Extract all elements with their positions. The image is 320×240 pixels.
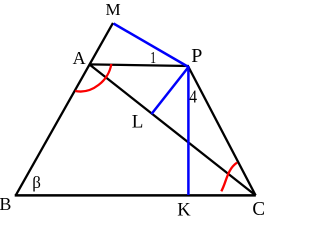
svg-text:1: 1 [150,48,156,67]
svg-text:4: 4 [189,86,197,106]
segment PC [189,67,256,195]
side BM (line through B, A, M) [16,23,113,196]
svg-text:B: B [0,194,11,214]
svg-text:β: β [32,173,41,192]
altitude PK (blue) [187,66,190,195]
svg-text:P: P [191,45,202,67]
segment AP [89,64,189,66]
angle arc at C (red) [221,163,237,192]
svg-text:A: A [73,48,86,68]
svg-text:C: C [252,198,265,220]
angle arc at A (red) [75,64,111,92]
svg-text:K: K [177,201,191,221]
segment MP (blue) [114,24,189,68]
segment PL (blue) [152,67,189,114]
svg-text:L: L [132,112,144,133]
svg-text:M: M [106,0,121,19]
diagonal AC [90,65,256,196]
base BC [15,194,256,197]
